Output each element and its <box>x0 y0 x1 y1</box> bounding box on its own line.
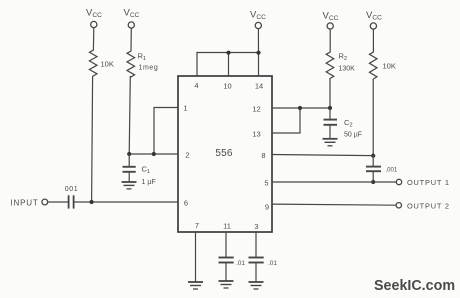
power VCC4 (R2) <box>323 11 339 30</box>
power VCC2 (R1) <box>124 8 140 29</box>
junction pin2/pin1 link <box>152 152 156 156</box>
wire: pin 8 line <box>272 155 373 156</box>
wire: pin 2 line <box>129 153 178 155</box>
svg-text:13: 13 <box>252 130 260 139</box>
svg-text:.01: .01 <box>236 260 245 267</box>
capacitor C1 1uF <box>123 154 156 186</box>
capacitor C2 50uF <box>324 108 363 139</box>
resistor R2 130K <box>326 29 355 78</box>
capacitor C .01 (pin 11) <box>219 258 246 281</box>
wire: pin 10 stub <box>228 53 230 77</box>
svg-text:11: 11 <box>223 222 231 231</box>
svg-text:C2: C2 <box>344 118 353 128</box>
wire: pin 13 to pin 12 link <box>272 108 300 133</box>
svg-text:VCC: VCC <box>366 10 382 22</box>
power VCC5 (right 10K) <box>366 10 382 29</box>
svg-text:6: 6 <box>184 199 188 208</box>
svg-text:R1: R1 <box>138 52 147 62</box>
svg-text:14: 14 <box>255 82 263 91</box>
IC U1 556 body <box>178 76 272 232</box>
terminal OUTPUT 1 <box>396 178 450 187</box>
junction pin12/R2/C2 <box>328 106 332 110</box>
svg-text:3: 3 <box>254 222 258 231</box>
svg-text:10: 10 <box>223 82 231 91</box>
svg-text:VCC: VCC <box>250 10 266 22</box>
junction pin8/10K/C3 <box>371 154 375 158</box>
junction C3 / pin 5 line <box>371 180 375 184</box>
svg-text:12: 12 <box>252 105 260 114</box>
wire: pin 12 line <box>272 107 330 109</box>
svg-text:1 µF: 1 µF <box>142 179 156 186</box>
wire: pin 3 down <box>255 232 257 257</box>
ground (C1) <box>122 182 137 189</box>
power VCC1 (left 10K) <box>86 8 102 28</box>
svg-text:SeekIC.com: SeekIC.com <box>374 278 455 294</box>
wire: right 10K bottom to pin 8 line <box>372 79 374 155</box>
wire: C4 to pin 6 <box>74 201 178 203</box>
terminal OUTPUT 2 <box>396 202 450 211</box>
ground (pin 11 cap) <box>219 281 234 288</box>
wire: pin 11 down <box>225 232 227 257</box>
svg-text:1: 1 <box>183 104 187 113</box>
wire: pin 1 stub <box>154 108 178 155</box>
junction at pin 10 / bus <box>226 51 230 55</box>
svg-text:C1: C1 <box>142 165 151 175</box>
ground (pin 3 cap) <box>249 282 264 289</box>
svg-text:4: 4 <box>194 81 198 90</box>
junction input line / 10K <box>90 200 94 204</box>
svg-text:001: 001 <box>65 186 78 193</box>
svg-text:556: 556 <box>215 148 233 159</box>
capacitor C .001 <box>366 155 398 182</box>
resistor R (right 10K) <box>369 29 395 79</box>
svg-text:OUTPUT 2: OUTPUT 2 <box>407 202 450 211</box>
wire: R1 bottom to pin 2 line <box>129 76 130 154</box>
svg-text:10K: 10K <box>383 62 396 71</box>
resistor R1 1meg <box>127 28 158 77</box>
ground (C2) <box>323 139 338 146</box>
junction pin12/pin13 link <box>298 106 302 110</box>
svg-text:50 µF: 50 µF <box>344 132 362 139</box>
svg-text:.001: .001 <box>386 168 398 174</box>
svg-text:R2: R2 <box>339 52 348 62</box>
wire: pin 9 line to OUTPUT 2 <box>272 204 396 205</box>
power VCC3 (pin 14) <box>250 10 266 29</box>
svg-text:OUTPUT 1: OUTPUT 1 <box>407 178 450 187</box>
svg-text:10K: 10K <box>101 60 114 69</box>
terminal INPUT <box>11 199 48 208</box>
capacitor C .01 (pin 3) <box>249 258 278 282</box>
svg-text:VCC: VCC <box>124 8 140 20</box>
wire: R2 bottom to pin 12 line <box>329 78 331 108</box>
wire: pin 5 line to OUTPUT 1 <box>272 181 396 183</box>
wire: input to C4 <box>48 201 69 203</box>
wire: pin 14 stub <box>258 53 260 77</box>
wire: top bus pins 4-10-14 <box>197 53 259 77</box>
junction at pin 14 / VCC <box>256 51 260 55</box>
ground (pin 7) <box>188 282 203 289</box>
wire: pin 7 to ground <box>195 232 197 281</box>
svg-text:130K: 130K <box>339 66 356 73</box>
junction pin2/R1/C1 <box>127 152 131 156</box>
svg-text:5: 5 <box>264 178 268 187</box>
svg-text:VCC: VCC <box>86 8 102 20</box>
svg-text:VCC: VCC <box>323 11 339 23</box>
svg-text:8: 8 <box>261 151 265 160</box>
wire: VCC3 down to pin 14 node <box>257 29 259 53</box>
svg-text:1meg: 1meg <box>139 65 159 72</box>
svg-text:9: 9 <box>265 203 269 212</box>
capacitor C .001 input <box>65 186 78 209</box>
wire: left 10K to input line <box>92 76 93 202</box>
svg-text:INPUT: INPUT <box>11 199 39 208</box>
svg-text:.01: .01 <box>268 260 277 267</box>
svg-text:2: 2 <box>185 151 189 160</box>
resistor R (left 10K) <box>89 28 113 76</box>
svg-text:7: 7 <box>195 221 199 230</box>
